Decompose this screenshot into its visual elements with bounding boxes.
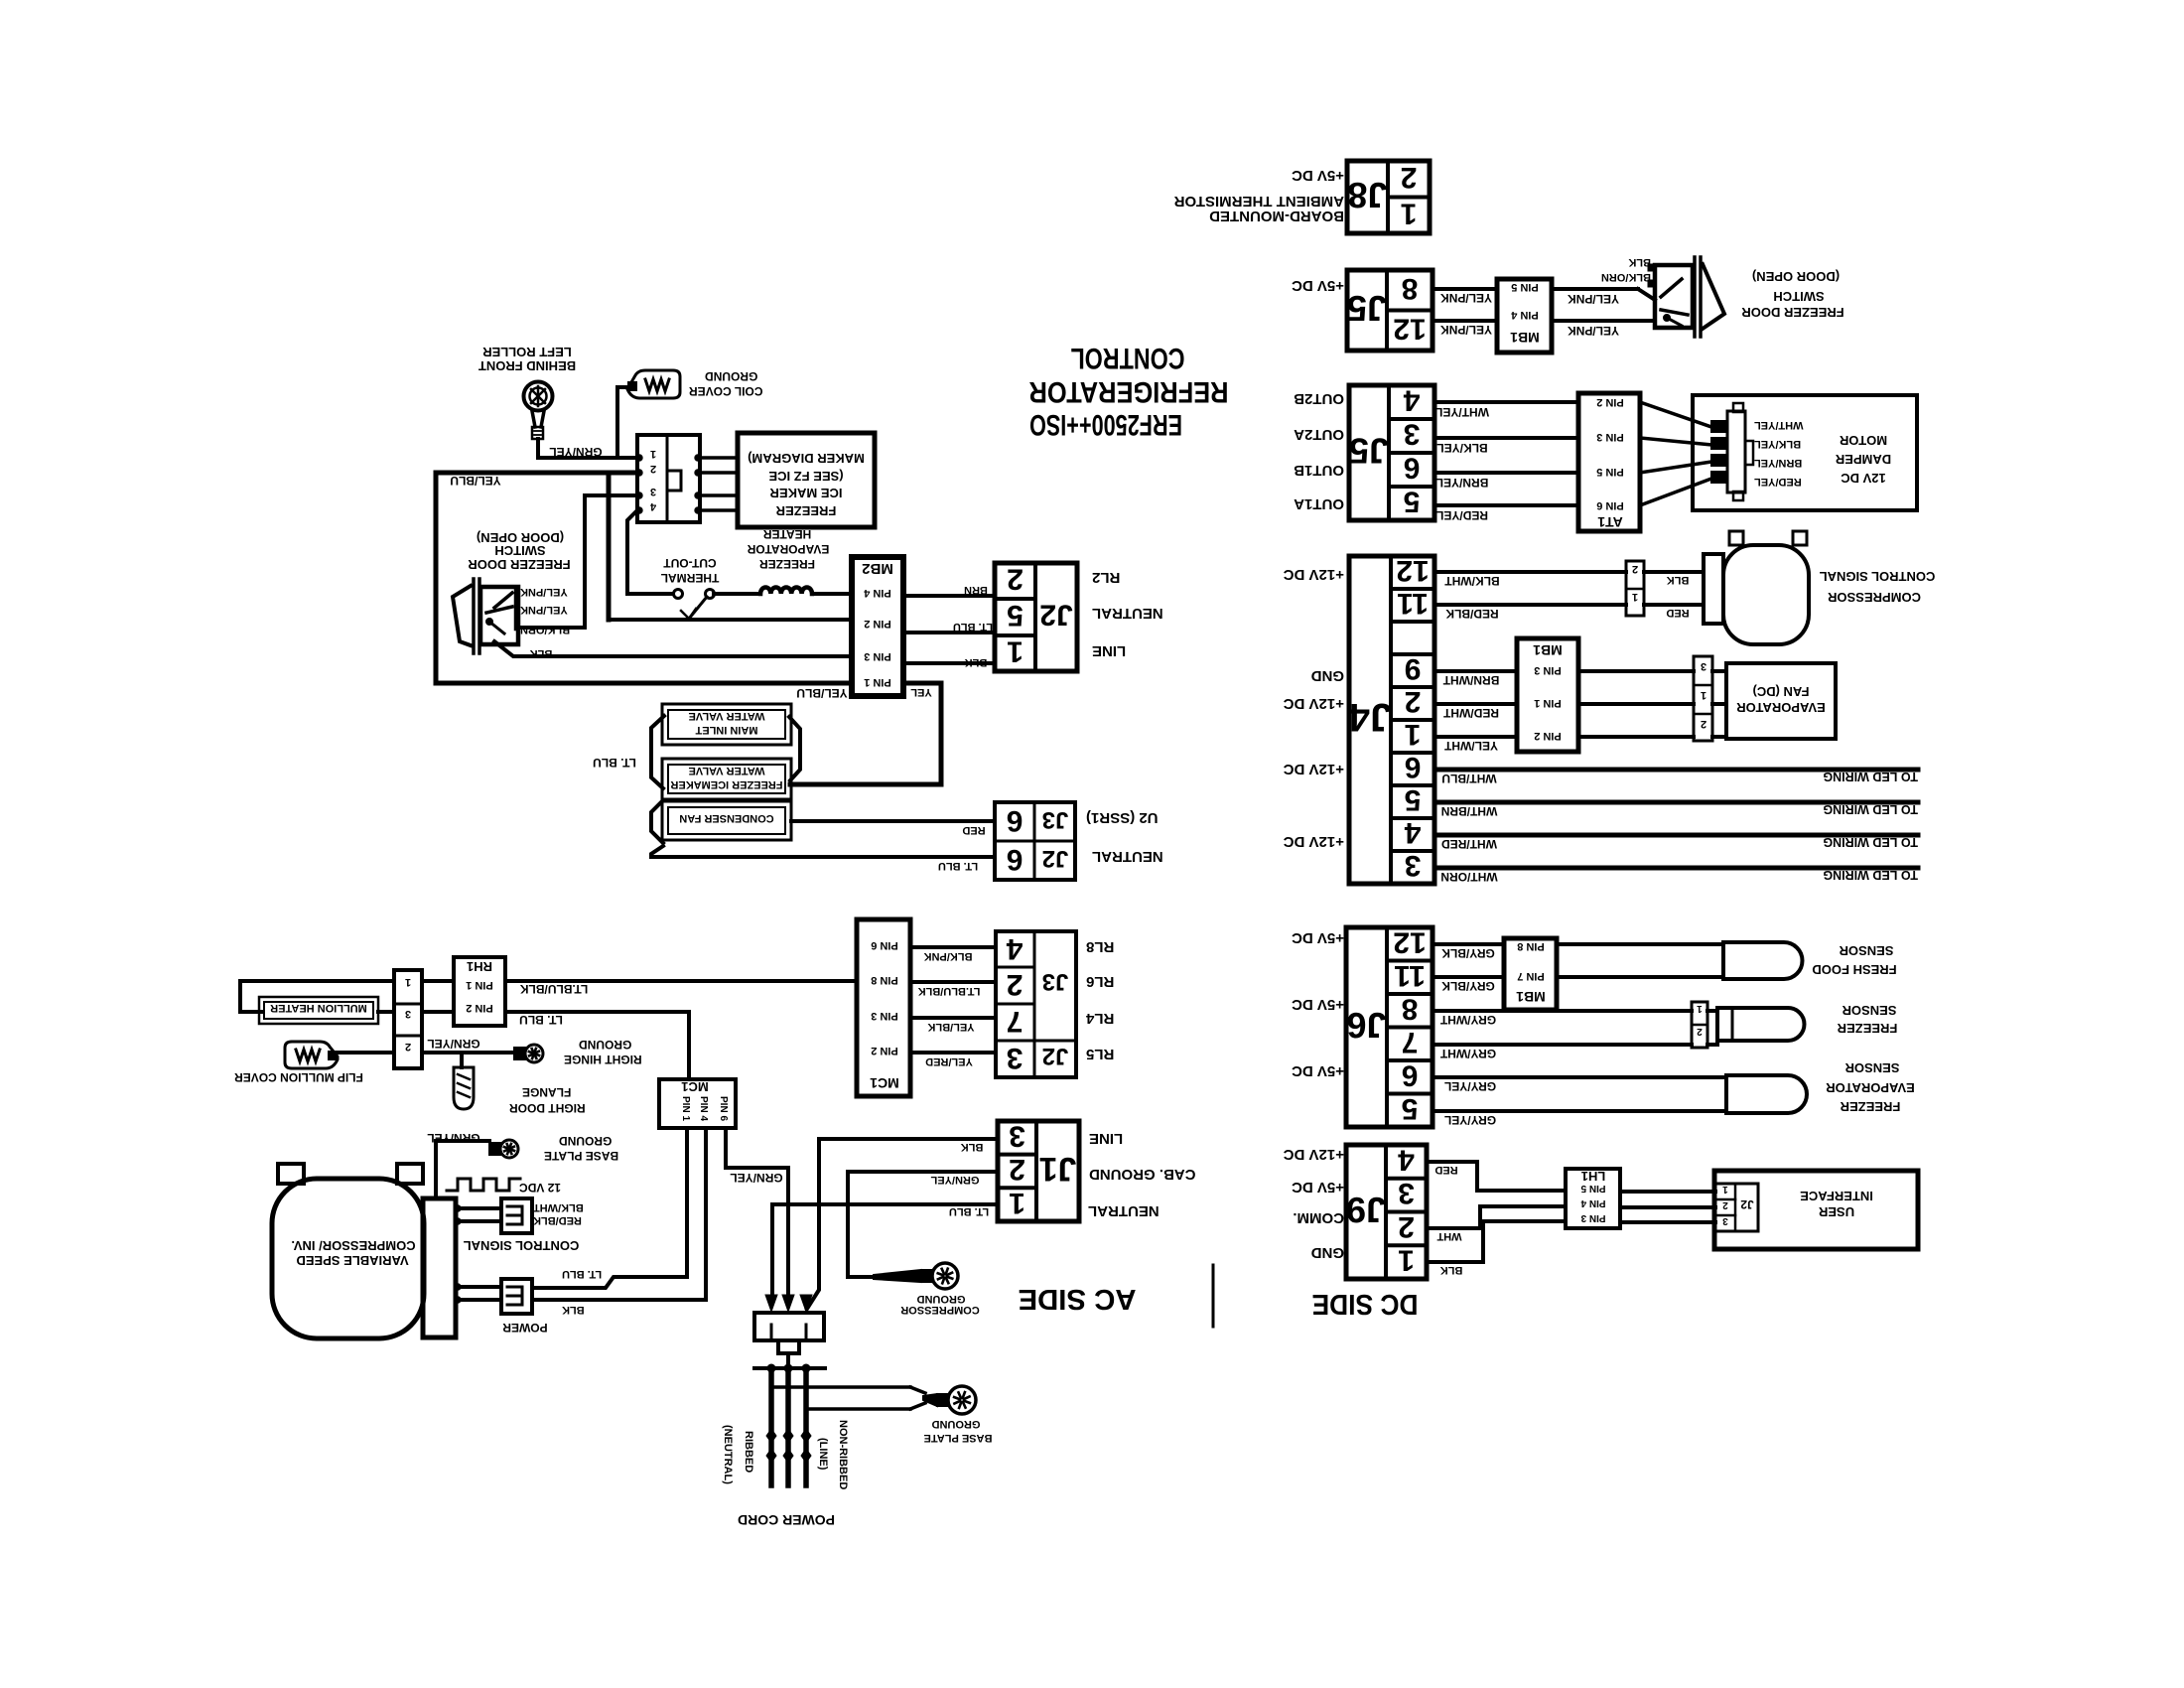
svg-text:GRY/BLK: GRY/BLK — [1441, 979, 1495, 993]
svg-text:POWER CORD: POWER CORD — [738, 1512, 835, 1528]
svg-text:BLK/ORN: BLK/ORN — [520, 624, 570, 635]
svg-text:+12V DC: +12V DC — [1284, 1146, 1344, 1163]
svg-text:PIN 5: PIN 5 — [1511, 281, 1539, 293]
freezer sensor thermistor — [1717, 1008, 1805, 1041]
left bracket valves — [651, 716, 664, 788]
connector J5 (pins 4,3,6,5) — [1349, 385, 1434, 520]
svg-text:+5V DC: +5V DC — [1292, 996, 1344, 1013]
svg-text:CONTROL SIGNAL: CONTROL SIGNAL — [464, 1238, 580, 1253]
svg-text:GRN/YEL: GRN/YEL — [427, 1131, 479, 1145]
svg-text:WHT: WHT — [1436, 1230, 1461, 1242]
svg-text:ERF2500++ISO: ERF2500++ISO — [1029, 408, 1182, 441]
connector LH1 — [1566, 1169, 1620, 1228]
wire J1-1 LT. BLU to terminal block — [772, 1204, 998, 1301]
svg-text:1: 1 — [1405, 718, 1422, 751]
svg-text:8: 8 — [1402, 272, 1419, 305]
svg-text:12: 12 — [1393, 312, 1426, 345]
connector MB1 (fresh food sensor) — [1504, 938, 1557, 1010]
svg-text:CONTROL: CONTROL — [1071, 342, 1185, 374]
wire J4-11 RED/BLK — [1434, 603, 1626, 607]
svg-text:DAMPER: DAMPER — [1835, 452, 1891, 467]
svg-text:BRN/WHT: BRN/WHT — [1442, 673, 1499, 687]
freezer door switch (left) — [480, 587, 518, 644]
svg-text:GROUND: GROUND — [917, 1293, 966, 1305]
svg-text:1: 1 — [1401, 197, 1418, 229]
wire J4-1 YEL/WHT — [1434, 735, 1517, 739]
wire J1-2 GRN/YEL to compressor ground — [848, 1172, 998, 1277]
svg-text:YEL/BLK: YEL/BLK — [927, 1021, 974, 1033]
svg-text:LT.BLU/BLK: LT.BLU/BLK — [918, 985, 981, 997]
svg-text:NEUTRAL: NEUTRAL — [1092, 848, 1163, 865]
svg-text:J4: J4 — [1347, 695, 1392, 739]
svg-text:GROUND: GROUND — [932, 1418, 981, 1430]
mullion heater loop wire — [240, 981, 394, 1012]
svg-text:2: 2 — [1697, 1026, 1703, 1037]
svg-text:WHT/BLU: WHT/BLU — [1441, 772, 1496, 785]
wire J1-3 BLK to terminal block — [807, 1139, 998, 1309]
svg-text:PIN 8: PIN 8 — [871, 974, 898, 986]
wire heater to MB2 pin4 — [812, 592, 852, 596]
svg-text:J9: J9 — [1346, 1190, 1386, 1230]
svg-text:GRY/WHT: GRY/WHT — [1439, 1013, 1496, 1027]
svg-text:PIN 2: PIN 2 — [1534, 730, 1562, 742]
svg-text:WHT/ORN: WHT/ORN — [1440, 870, 1497, 884]
svg-text:PIN 1: PIN 1 — [466, 979, 493, 991]
svg-text:BLK: BLK — [965, 656, 988, 668]
connector J8 — [1347, 161, 1430, 233]
svg-text:EVAPORATOR: EVAPORATOR — [1826, 1080, 1915, 1095]
svg-text:ICE MAKER: ICE MAKER — [769, 486, 843, 500]
svg-text:J2: J2 — [1039, 599, 1072, 632]
svg-text:YEL/RED: YEL/RED — [925, 1055, 973, 1067]
wire J4-4 WHT/RED to LED wiring — [1434, 833, 1918, 838]
svg-text:MC1: MC1 — [681, 1079, 708, 1094]
svg-text:1: 1 — [650, 448, 656, 460]
svg-text:PIN 3: PIN 3 — [864, 650, 891, 662]
svg-text:RED/BLK: RED/BLK — [1445, 607, 1499, 621]
svg-text:PIN 1: PIN 1 — [680, 1096, 691, 1121]
freezer door switch (right) — [1655, 265, 1693, 328]
connector MB1 (door switch) — [1497, 279, 1552, 352]
svg-text:VARIABLE SPEED: VARIABLE SPEED — [296, 1253, 408, 1268]
compressor ground lug — [932, 1263, 958, 1289]
inverter connector — [423, 1198, 456, 1337]
right door flange icon — [454, 1067, 474, 1109]
svg-text:YEL/BLU: YEL/BLU — [796, 686, 847, 700]
wire LT. BLU power to MC1 pin1 — [532, 1277, 687, 1288]
svg-text:3: 3 — [1405, 849, 1422, 882]
svg-text:+12V DC: +12V DC — [1284, 761, 1344, 777]
svg-text:5: 5 — [1007, 599, 1024, 632]
svg-text:SENSOR: SENSOR — [1839, 943, 1894, 958]
svg-text:TO LED WIRING: TO LED WIRING — [1823, 835, 1918, 849]
svg-text:+5V DC: +5V DC — [1292, 167, 1344, 184]
svg-text:CONTROL SIGNAL: CONTROL SIGNAL — [1820, 569, 1936, 584]
svg-text:PIN 2: PIN 2 — [466, 1002, 493, 1014]
user interface box — [1714, 1171, 1918, 1249]
wire J4-3 WHT/ORN to LED wiring — [1434, 866, 1918, 871]
base plate ground lug (inverter) — [500, 1140, 518, 1158]
svg-text:LINE: LINE — [1092, 642, 1126, 659]
svg-text:TO LED WIRING: TO LED WIRING — [1823, 802, 1918, 816]
svg-text:CAB. GROUND: CAB. GROUND — [1089, 1166, 1196, 1183]
wire MC1 pin4 BLK down — [704, 1128, 708, 1300]
svg-text:RH1: RH1 — [467, 959, 492, 974]
svg-text:SWITCH: SWITCH — [494, 543, 545, 558]
svg-text:MOTOR: MOTOR — [1839, 433, 1887, 448]
svg-text:FREEZER: FREEZER — [759, 557, 815, 571]
svg-text:2: 2 — [1401, 161, 1418, 194]
svg-text:RIBBED: RIBBED — [743, 1431, 754, 1473]
connector MB2 — [852, 557, 903, 696]
power connector plug — [501, 1279, 532, 1314]
behind front left roller ground — [524, 382, 553, 411]
svg-text:BEHIND FRONT: BEHIND FRONT — [478, 358, 576, 373]
freezer ice maker box — [738, 433, 875, 527]
svg-text:RED: RED — [962, 824, 985, 836]
svg-text:WHT/YEL: WHT/YEL — [1754, 419, 1804, 431]
svg-text:4: 4 — [1398, 1143, 1415, 1176]
svg-text:RED: RED — [1666, 607, 1689, 619]
base plate ground lug (power cord) — [948, 1386, 976, 1414]
svg-text:J2: J2 — [1042, 845, 1069, 872]
svg-text:J3: J3 — [1042, 968, 1069, 995]
wire mullion heater to connector pin3 — [378, 1010, 394, 1014]
wire to flip mullion cover — [337, 1051, 394, 1055]
svg-text:OUT1A: OUT1A — [1294, 495, 1344, 512]
svg-text:MB1: MB1 — [1533, 642, 1563, 658]
connector 3/1/2 (evap fan) — [1694, 656, 1712, 741]
evaporator fan (DC) box — [1726, 663, 1836, 739]
svg-text:6: 6 — [1405, 751, 1422, 783]
svg-text:BASE PLATE: BASE PLATE — [924, 1432, 993, 1444]
wire YEL/BLU loop left — [434, 473, 439, 683]
svg-text:8: 8 — [1402, 992, 1419, 1025]
svg-text:BLK: BLK — [530, 647, 553, 659]
svg-text:FLANGE: FLANGE — [522, 1085, 571, 1099]
svg-text:RIGHT HINGE: RIGHT HINGE — [564, 1053, 642, 1066]
power cord ground lead to base plate — [771, 1385, 910, 1389]
svg-text:FRESH FOOD: FRESH FOOD — [1812, 962, 1896, 977]
svg-text:PIN 1: PIN 1 — [864, 676, 891, 688]
svg-text:WHT/RED: WHT/RED — [1441, 837, 1497, 851]
svg-text:MULLION HEATER: MULLION HEATER — [270, 1002, 367, 1014]
svg-text:PIN 3: PIN 3 — [1580, 1212, 1605, 1223]
svg-text:BRN/YEL: BRN/YEL — [1754, 457, 1803, 469]
svg-text:PIN 4: PIN 4 — [1510, 309, 1538, 321]
wire ice-maker node to MB2 pin2 — [607, 473, 612, 620]
svg-text:J3: J3 — [1042, 806, 1069, 833]
svg-text:BLK: BLK — [1628, 256, 1651, 268]
svg-text:2: 2 — [650, 463, 656, 475]
svg-text:(LINE): (LINE) — [817, 1438, 829, 1471]
svg-text:BRN/YEL: BRN/YEL — [1436, 476, 1489, 490]
wire condenser fan RED to J3-6 — [791, 819, 995, 823]
right hinge ground lug — [525, 1045, 543, 1062]
svg-text:5: 5 — [1402, 1092, 1419, 1125]
svg-text:3: 3 — [1009, 1119, 1025, 1152]
svg-text:12: 12 — [1393, 925, 1426, 958]
svg-text:LT. BLU: LT. BLU — [593, 756, 636, 770]
wire connector pin1 to RH1 pin1 — [422, 979, 454, 983]
wire junction to right door flange — [460, 1053, 464, 1067]
svg-text:1: 1 — [1007, 635, 1024, 668]
svg-text:J8: J8 — [1347, 175, 1387, 215]
wire BLK switch to MB2 pin3 — [494, 641, 852, 656]
connector J2 (user interface) — [1715, 1184, 1758, 1231]
wire J4-12 BLK/WHT — [1434, 570, 1626, 574]
svg-text:RL4: RL4 — [1085, 1010, 1114, 1027]
svg-text:(DOOR OPEN): (DOOR OPEN) — [477, 530, 564, 545]
svg-text:AT1: AT1 — [1597, 514, 1623, 530]
svg-text:7: 7 — [1402, 1026, 1419, 1058]
svg-text:LT. BLU: LT. BLU — [519, 1013, 563, 1027]
wire cutout to heater — [714, 592, 760, 596]
svg-text:GRY/YEL: GRY/YEL — [1444, 1079, 1496, 1093]
svg-text:1: 1 — [1009, 1187, 1025, 1219]
connector J1 — [998, 1121, 1079, 1221]
control signal connector plug — [501, 1198, 532, 1233]
svg-text:BLK: BLK — [961, 1141, 984, 1153]
svg-text:7: 7 — [1007, 1005, 1024, 1038]
svg-text:PIN 8: PIN 8 — [1517, 940, 1545, 952]
svg-text:12: 12 — [1396, 554, 1429, 587]
svg-text:2: 2 — [1701, 718, 1706, 730]
svg-text:COMPRESSOR/ INV.: COMPRESSOR/ INV. — [291, 1238, 415, 1253]
svg-text:PIN 2: PIN 2 — [871, 1045, 898, 1056]
connector 1/3/2 (mullion) — [394, 970, 422, 1068]
svg-text:PIN 6: PIN 6 — [718, 1096, 729, 1121]
wire MC1 pin8 LT.BLU/BLK to J3-2 — [910, 980, 996, 984]
svg-text:PIN 6: PIN 6 — [1596, 499, 1624, 511]
svg-text:PIN 3: PIN 3 — [1596, 431, 1624, 443]
svg-text:1: 1 — [1722, 1184, 1728, 1195]
svg-text:6: 6 — [1404, 452, 1421, 485]
svg-text:FREEZER DOOR: FREEZER DOOR — [1741, 305, 1844, 320]
svg-text:GRN/YEL: GRN/YEL — [427, 1037, 479, 1051]
svg-text:BLK: BLK — [562, 1304, 585, 1316]
freezer evaporator sensor thermistor — [1726, 1075, 1807, 1113]
svg-text:YEL/PNK: YEL/PNK — [520, 586, 568, 598]
svg-text:J6: J6 — [1346, 1005, 1386, 1046]
svg-text:BASE PLATE: BASE PLATE — [544, 1149, 618, 1163]
wires inverter to control signal connector — [456, 1206, 501, 1210]
power cord bus — [754, 1366, 825, 1370]
svg-text:6: 6 — [1007, 804, 1024, 837]
svg-text:PIN 3: PIN 3 — [1534, 664, 1562, 676]
svg-text:U2 (SSR1): U2 (SSR1) — [1086, 809, 1159, 826]
svg-text:COMPRESSOR: COMPRESSOR — [900, 1304, 980, 1316]
damper connector symbol — [1727, 411, 1745, 492]
svg-text:PIN 5: PIN 5 — [1596, 466, 1624, 478]
connector 1/2 (freezer sensor) — [1692, 1002, 1707, 1048]
svg-text:LT. BLU: LT. BLU — [938, 860, 978, 872]
wire MC1 pin6 BLK/PNK to J3-4 — [910, 945, 996, 949]
svg-text:LT.BLU/BLK: LT.BLU/BLK — [519, 982, 588, 996]
wires LH1 to J2 — [1620, 1190, 1715, 1194]
svg-text:FLIP MULLION COVER: FLIP MULLION COVER — [234, 1070, 363, 1084]
wire J6-8 GRY/WHT — [1433, 1009, 1692, 1013]
svg-text:SENSOR: SENSOR — [1844, 1060, 1900, 1075]
svg-text:MAKER DIAGRAM): MAKER DIAGRAM) — [748, 451, 865, 466]
svg-text:PIN 7: PIN 7 — [1517, 970, 1545, 982]
svg-text:NEUTRAL: NEUTRAL — [1088, 1202, 1160, 1219]
svg-text:FREEZER: FREEZER — [1837, 1021, 1897, 1036]
wire J4-6 WHT/BLU to LED wiring — [1434, 768, 1918, 773]
connector MB1 (evap fan) — [1517, 638, 1578, 752]
wire YEL/BLU loop bottom to MB2 pin1 — [436, 681, 852, 686]
svg-text:OUT2A: OUT2A — [1294, 426, 1344, 443]
svg-text:11: 11 — [1397, 587, 1429, 620]
condenser fan box — [662, 801, 791, 840]
svg-text:WATER VALVE: WATER VALVE — [689, 710, 765, 722]
svg-text:YEL/PNK: YEL/PNK — [1568, 324, 1619, 338]
svg-text:1: 1 — [1697, 1003, 1703, 1014]
thermal cut-out — [674, 590, 683, 599]
arrow into block right — [800, 1295, 812, 1312]
svg-text:2: 2 — [1722, 1199, 1728, 1210]
svg-text:+5V DC: +5V DC — [1292, 1179, 1344, 1196]
svg-text:2: 2 — [1007, 563, 1024, 596]
svg-text:CUT-OUT: CUT-OUT — [663, 556, 717, 570]
svg-text:3: 3 — [650, 486, 656, 497]
svg-text:RED/BLK: RED/BLK — [533, 1214, 582, 1226]
svg-text:GROUND: GROUND — [579, 1038, 632, 1052]
wire J5-4 WHT/YEL — [1434, 400, 1578, 404]
svg-text:BLK/WHT: BLK/WHT — [1444, 574, 1500, 588]
svg-text:J5: J5 — [1349, 431, 1389, 472]
12V DC damper motor box — [1693, 395, 1917, 510]
terminal block — [754, 1313, 824, 1340]
mullion heater box — [259, 997, 378, 1024]
svg-text:GROUND: GROUND — [559, 1134, 613, 1148]
svg-text:MB1: MB1 — [1516, 989, 1546, 1005]
svg-text:3: 3 — [1404, 418, 1421, 451]
svg-text:HEATER: HEATER — [762, 527, 811, 541]
svg-text:12V DC: 12V DC — [1841, 471, 1886, 486]
svg-text:BLK/ORN: BLK/ORN — [1601, 271, 1651, 283]
svg-text:RL2: RL2 — [1092, 569, 1120, 586]
wire J5-3 BLK/YEL — [1434, 436, 1578, 440]
svg-text:GRY/WHT: GRY/WHT — [1439, 1047, 1496, 1060]
svg-text:PIN 4: PIN 4 — [863, 587, 890, 599]
svg-text:INTERFACE: INTERFACE — [1800, 1189, 1873, 1203]
svg-text:3: 3 — [405, 1008, 411, 1020]
wire RH1 pin2 LT. BLU to MC1 top — [505, 1012, 689, 1079]
svg-text:LT. BLU: LT. BLU — [953, 621, 993, 633]
svg-text:BOARD-MOUNTED: BOARD-MOUNTED — [1209, 208, 1344, 224]
wire ice maker pin4 to thermal cutout — [627, 510, 673, 594]
svg-text:MC1: MC1 — [870, 1075, 899, 1091]
svg-text:4: 4 — [1404, 816, 1421, 849]
wires AT1 to damper connector — [1640, 402, 1711, 427]
svg-text:4: 4 — [1006, 932, 1023, 965]
svg-text:FREEZER DOOR: FREEZER DOOR — [468, 557, 571, 572]
svg-text:LT. BLU: LT. BLU — [562, 1268, 602, 1280]
svg-text:+5V DC: +5V DC — [1292, 1062, 1344, 1079]
svg-text:CONDENSER FAN: CONDENSER FAN — [679, 812, 773, 824]
connector MC1 (compressor) — [659, 1079, 736, 1128]
left bracket fan to LT.BLU — [651, 846, 995, 857]
svg-text:COMPRESSOR: COMPRESSOR — [1827, 590, 1921, 605]
svg-text:TO LED WIRING: TO LED WIRING — [1823, 868, 1918, 882]
wire connector pin3 to RH1 pin2 — [422, 1010, 454, 1014]
svg-text:RL6: RL6 — [1086, 973, 1114, 990]
svg-text:+12V DC: +12V DC — [1284, 695, 1344, 712]
wire MB1 pin5 to switch YEL/PNK — [1552, 287, 1638, 291]
svg-text:FAN (DC): FAN (DC) — [1752, 684, 1809, 699]
wire RED to compressor — [1644, 603, 1704, 607]
freezer evaporator heater coil — [760, 587, 812, 594]
svg-text:+5V DC: +5V DC — [1292, 277, 1344, 294]
connector J5 (pins 8,12) — [1347, 270, 1433, 351]
svg-text:9: 9 — [1405, 652, 1422, 685]
svg-text:YEL/PNK: YEL/PNK — [1440, 291, 1492, 305]
svg-text:EVAPORATOR: EVAPORATOR — [747, 542, 829, 556]
svg-text:WHT/YEL: WHT/YEL — [1435, 405, 1489, 419]
svg-text:AC SIDE: AC SIDE — [1019, 1283, 1137, 1315]
ice maker connector — [637, 435, 700, 522]
svg-text:J2: J2 — [1042, 1043, 1069, 1069]
svg-text:GRY/BLK: GRY/BLK — [1441, 946, 1495, 960]
svg-text:BLK/YEL: BLK/YEL — [1754, 438, 1801, 450]
wires MB1 to fresh food sensor — [1557, 942, 1723, 946]
svg-text:6: 6 — [1402, 1058, 1419, 1091]
connector J2 (RL2/NEUTRAL/LINE) — [995, 563, 1077, 671]
svg-text:MB1: MB1 — [1510, 330, 1540, 346]
wire MB2 pin1 YEL to water valves — [790, 683, 941, 784]
svg-text:RED/YEL: RED/YEL — [1754, 476, 1802, 488]
svg-text:3: 3 — [1701, 660, 1706, 672]
connector J3/J2 (relays) — [996, 931, 1076, 1077]
wire MB2 pin4 to J2-2 BRN — [903, 594, 995, 598]
svg-text:3: 3 — [1398, 1177, 1415, 1209]
connector RH1 — [454, 957, 505, 1026]
svg-text:PIN 1: PIN 1 — [1534, 697, 1562, 709]
wire J4-5 WHT/BRN to LED wiring — [1434, 800, 1918, 805]
svg-text:3: 3 — [1722, 1215, 1728, 1226]
svg-text:(DOOR OPEN): (DOOR OPEN) — [1752, 269, 1840, 284]
svg-text:FREEZER: FREEZER — [775, 503, 836, 518]
connector AT1 — [1578, 393, 1640, 531]
wire MC1 pin2 YEL/RED to J2-3 — [910, 1051, 996, 1055]
svg-text:BRN: BRN — [964, 584, 988, 596]
svg-text:YEL/PNK: YEL/PNK — [520, 604, 568, 616]
svg-text:GND: GND — [1311, 1244, 1345, 1261]
svg-text:NEUTRAL: NEUTRAL — [1092, 605, 1163, 622]
wire MB1 pin4 to switch YEL/PNK — [1552, 319, 1655, 323]
svg-text:GRN/YEL: GRN/YEL — [549, 445, 602, 459]
wire J6-12 GRY/BLK — [1433, 942, 1504, 946]
flip mullion cover clamp — [285, 1042, 338, 1068]
coil cover ground clamp — [627, 370, 680, 398]
svg-text:REFRIGERATOR: REFRIGERATOR — [1028, 375, 1228, 408]
wire J6-7 GRY/WHT — [1433, 1043, 1692, 1047]
wires MB1 to fan connector — [1578, 669, 1694, 673]
arrow into block middle — [782, 1295, 794, 1312]
variable speed compressor/inv blob — [272, 1179, 424, 1338]
svg-text:J5: J5 — [1347, 288, 1387, 329]
svg-text:YEL/WHT: YEL/WHT — [1443, 739, 1498, 753]
svg-text:J1: J1 — [1039, 1150, 1077, 1188]
svg-text:WATER VALVE: WATER VALVE — [689, 765, 765, 776]
svg-text:2: 2 — [1632, 563, 1638, 575]
svg-text:OUT2B: OUT2B — [1294, 390, 1344, 407]
compressor (control signal) — [1704, 554, 1723, 624]
svg-text:RL5: RL5 — [1086, 1046, 1114, 1062]
wire J6-6 GRY/YEL — [1433, 1075, 1726, 1079]
svg-text:+5V DC: +5V DC — [1292, 929, 1344, 946]
